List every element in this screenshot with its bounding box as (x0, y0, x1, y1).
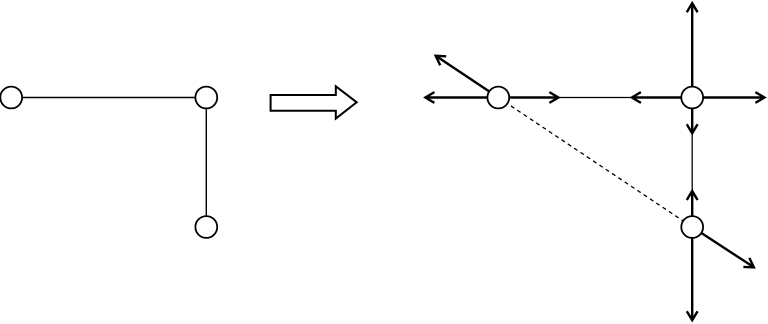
force arrow from node C pointing down (687, 227, 698, 320)
force arrow from node A pointing upper-left (436, 56, 499, 98)
force arrow from node B pointing down (687, 98, 698, 134)
node B (right graph, top right) (681, 87, 703, 109)
node 2 (left graph, top right) (195, 87, 217, 109)
wire: left graph edge 2-3 (205, 98, 207, 228)
force arrow from node B pointing right (692, 92, 764, 103)
force arrow from node C pointing lower-right (692, 227, 754, 267)
force arrow from node B pointing up (687, 3, 698, 97)
wire: right graph edge A-B (498, 97, 692, 99)
force arrow from node A pointing right (498, 92, 558, 103)
block arrow (transformation) (271, 86, 357, 118)
wire: dashed edge A-C (498, 98, 692, 228)
force arrow from node A pointing left (425, 92, 498, 103)
node C (right graph, bottom) (681, 216, 703, 238)
node 3 (left graph, bottom) (195, 216, 217, 238)
node A (right graph, left) (487, 87, 509, 109)
force arrow from node B pointing left (632, 92, 692, 103)
wire: left graph edge 1-2 (11, 97, 206, 99)
wire: right graph edge B-C (691, 98, 693, 228)
force arrow from node C pointing up (687, 191, 698, 227)
node 1 (left graph, left) (0, 87, 22, 109)
